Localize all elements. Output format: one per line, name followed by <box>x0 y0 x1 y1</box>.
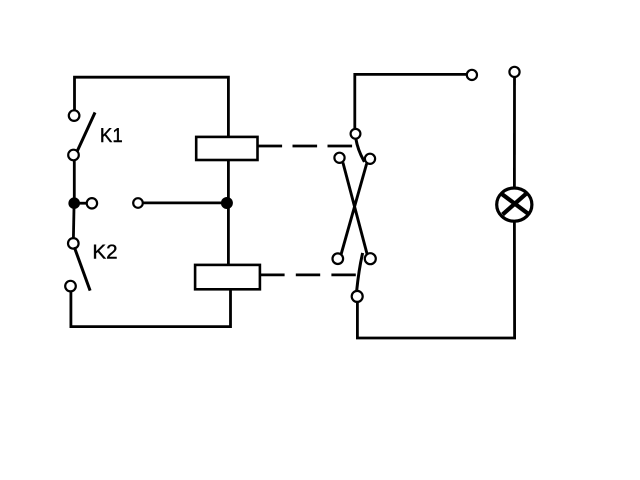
dashed link: relay K2 coil to crossover contact (mechanical coupling) <box>260 273 357 276</box>
relay coil K2 <box>195 265 260 289</box>
terminal: right loop top open end <box>467 70 477 80</box>
switch K1 top terminal <box>69 110 80 121</box>
wire: contact top common terminal up and across right loop top <box>355 74 467 130</box>
contact terminal: lower-left <box>333 253 344 264</box>
contact blade lower (to bottom common terminal) <box>357 254 363 290</box>
switch K2 bottom terminal <box>65 281 76 292</box>
lamp L1 (circle with X) <box>497 188 532 221</box>
wire: relay coil K2 bottom, bottom rail of left loop, up to K2 bottom terminal <box>71 288 231 327</box>
crossover link upper-left to lower-right <box>343 163 367 255</box>
switch K2 blade <box>75 249 90 290</box>
wire: lamp supply terminal down to lamp <box>513 77 516 187</box>
wire: junction node down to K2 top terminal <box>72 208 75 239</box>
terminal: lamp supply open end <box>509 67 519 77</box>
svg-text:K1: K1 <box>100 125 123 147</box>
junction node (filled) on main vertical <box>221 197 233 209</box>
dashed link: relay K1 coil to crossover contact (mechanical coupling) <box>258 145 353 148</box>
contact terminal: upper-right <box>365 154 375 164</box>
wire: main vertical through relay coils <box>227 136 230 266</box>
terminal at junction stub <box>87 198 97 208</box>
switch K1 blade <box>77 114 95 152</box>
contact terminal: bottom common <box>352 291 363 302</box>
crossover link upper-right to lower-left <box>341 164 367 255</box>
wire: left loop top run (K1 top terminal up, across, down to relay coil K1) <box>75 77 229 138</box>
wire: lamp bottom, bottom rail of right loop, up to contact bottom common terminal <box>357 223 514 339</box>
contact terminal: lower-right <box>365 253 376 264</box>
contact terminal: upper-left <box>334 153 344 163</box>
contact blade upper (from top common terminal) <box>356 139 364 161</box>
switch K2 top terminal <box>68 238 79 249</box>
wire: junction stub to open terminal <box>74 202 87 205</box>
terminal: centre branch open end <box>133 198 143 208</box>
switch K1 bottom terminal <box>68 150 79 161</box>
wire: centre branch to junction on main vertical <box>143 201 228 204</box>
wire: K1 bottom terminal to junction node <box>73 160 76 199</box>
svg-text:K2: K2 <box>92 242 117 264</box>
contact terminal: top common <box>351 129 361 139</box>
junction node (filled) on left branch <box>68 197 80 209</box>
relay coil K1 <box>196 137 257 160</box>
